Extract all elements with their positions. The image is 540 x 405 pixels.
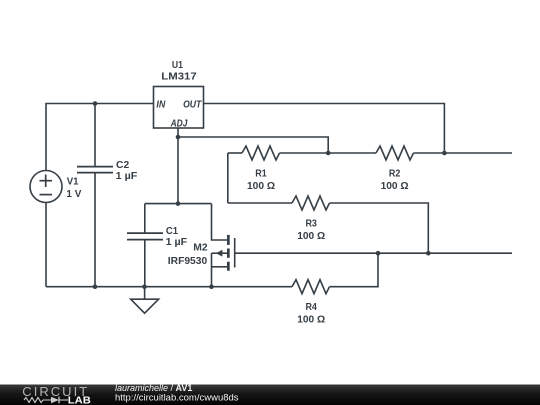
resistor R1 [242,146,280,160]
transistor M2 channel bar middle [227,249,230,258]
resistor R2 [376,146,414,160]
node dot rail ground [142,284,147,289]
resistor R4 [292,280,330,294]
svg-text:100 Ω: 100 Ω [297,230,325,242]
node dot gate-R4 [376,251,381,256]
wire ADJ down to C1 top [177,128,179,204]
svg-text:R4: R4 [305,301,317,313]
transistor M2 body lead with arrow [212,252,228,254]
transistor M2 drain lead top [212,204,228,240]
node dot gate-R3 [426,251,431,256]
transistor M2 channel bar top [227,235,230,245]
wire R3 right lead and drop to gate net [330,203,429,253]
ground symbol stem [144,287,146,300]
capacitor C2 plates [77,167,113,173]
svg-text:ADJ: ADJ [170,117,189,129]
wire C1 top link [145,203,212,205]
ground symbol triangle [131,299,159,313]
node dot ADJ at C1 top link [176,201,181,206]
IC U1 LM317 box [154,87,204,129]
transistor M2 gate bar [234,238,236,268]
node dot R2 right [442,151,447,156]
capacitor C1 plates [127,233,163,240]
logo resistor zigzag [24,398,51,403]
wire OUT to right drop [204,104,445,154]
svg-text:OUT: OUT [183,99,202,111]
V1 plus sign [40,175,53,188]
transistor M2 source lead bottom [212,266,228,268]
svg-text:LAB: LAB [68,395,91,405]
wire ADJ branch right and down to R1-R2 net [178,137,328,153]
node dot ADJ branch [176,135,181,140]
svg-text:M2: M2 [193,242,208,254]
svg-text:U1: U1 [172,59,183,71]
node dot R1-R2 mid [326,151,331,156]
wire R1-R2 net segment [228,152,242,154]
wire C1 upper leg [144,204,146,234]
svg-text:V1: V1 [67,176,79,188]
wire R2 right output stub [414,152,513,154]
node dot C2 top [93,101,98,106]
wire C2 upper leg [94,104,96,167]
wire gate net [235,252,512,254]
svg-text:lauramichelle / AV1: lauramichelle / AV1 [115,383,192,393]
wire R4 right lead and riser to gate net [330,253,379,287]
svg-text:1 µF: 1 µF [166,236,188,248]
svg-text:1 V: 1 V [66,188,81,200]
wire V1 bottom [45,203,47,287]
svg-text:R1: R1 [255,167,267,179]
wire C1 lower leg [144,240,146,287]
wire R1 right to R2 left [280,152,377,154]
node dot rail C2 [93,284,98,289]
wire M2 to bottom rail [211,253,213,287]
node dot rail M2 [209,284,214,289]
svg-text:IN: IN [156,99,165,111]
svg-text:R3: R3 [305,218,317,230]
V1 minus sign [40,194,53,196]
svg-text:R2: R2 [389,167,401,179]
svg-text:http://circuitlab.com/cwwu8ds: http://circuitlab.com/cwwu8ds [115,393,239,404]
transistor M2 channel bar bottom [227,262,230,271]
svg-text:1 µF: 1 µF [116,170,138,182]
svg-text:100 Ω: 100 Ω [297,313,325,325]
svg-text:LM317: LM317 [161,71,197,83]
transistor M2 body arrow [216,250,223,257]
resistor R3 [292,196,330,210]
logo diode [51,397,59,404]
wire R3 left lead [228,202,292,204]
wire C2 lower leg [94,173,96,287]
svg-text:100 Ω: 100 Ω [381,180,409,192]
svg-text:100 Ω: 100 Ω [247,180,275,192]
wire bottom rail [46,286,292,288]
wire R1 left lead down to R3 [227,153,229,203]
wire top rail from V1 to IN [46,104,154,171]
footer bar [0,385,540,405]
svg-text:IRF9530: IRF9530 [168,255,208,267]
voltage source V1 circle [30,171,62,203]
